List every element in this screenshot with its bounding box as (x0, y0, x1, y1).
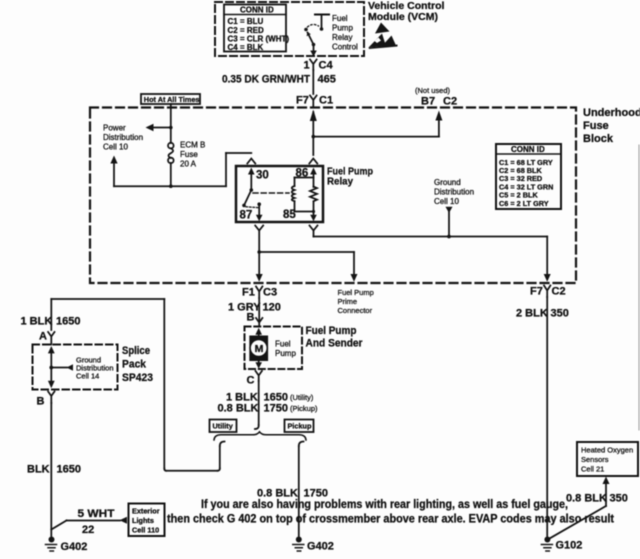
svg-text:(Utility): (Utility) (290, 393, 314, 402)
svg-text:ECM B: ECM B (180, 141, 205, 150)
svg-text:(Not used): (Not used) (415, 86, 451, 95)
ECM B fuse (168, 143, 174, 163)
wire relay 87 to F1 C3 (256, 231, 263, 282)
svg-text:1650: 1650 (56, 316, 80, 328)
node 1 C4 connector (304, 60, 334, 72)
wire splice to G402 (50, 403, 52, 536)
VCM dashed box (215, 2, 364, 56)
relay pin 87 (240, 202, 263, 221)
svg-text:If you are also having problem: If you are also having problems with rea… (201, 499, 568, 511)
svg-text:F7: F7 (296, 95, 309, 107)
svg-text:C1 = BLU: C1 = BLU (228, 17, 264, 26)
svg-text:CONN ID: CONN ID (511, 145, 545, 154)
svg-text:20 A: 20 A (180, 160, 197, 169)
junction dot (169, 126, 173, 130)
right ground wire (546, 297, 548, 536)
svg-text:Relay: Relay (332, 33, 352, 42)
svg-text:And Sender: And Sender (306, 338, 364, 350)
wire VCM control into fuse block (309, 110, 317, 164)
svg-text:Utility: Utility (213, 422, 234, 431)
svg-text:F1: F1 (242, 287, 255, 299)
svg-text:Fuel: Fuel (275, 340, 291, 349)
5 WHT 22 branch to exterior lights (51, 517, 127, 530)
svg-text:Exterior: Exterior (132, 507, 160, 516)
svg-text:Pickup: Pickup (288, 422, 312, 431)
svg-text:350: 350 (610, 493, 628, 505)
svg-text:0.8 BLK: 0.8 BLK (218, 403, 259, 415)
svg-text:C4: C4 (319, 60, 334, 72)
svg-text:Pack: Pack (122, 359, 147, 371)
node F1 C3 connector (242, 287, 277, 299)
svg-text:Fuel: Fuel (332, 14, 348, 23)
svg-text:BLK: BLK (27, 464, 50, 476)
relay coil (292, 178, 314, 212)
svg-text:Cell 21: Cell 21 (581, 465, 604, 474)
ground distribution cell 10 reference (434, 178, 474, 237)
svg-text:22: 22 (82, 524, 94, 536)
svg-text:Cell 10: Cell 10 (434, 197, 459, 206)
wire fuse to relay pin 30 (170, 163, 172, 186)
exterior lights box (129, 504, 165, 537)
svg-text:Power: Power (103, 124, 126, 133)
svg-text:Connector: Connector (338, 306, 373, 315)
svg-text:B7: B7 (421, 96, 435, 108)
underhood fuse block dashed box (90, 108, 576, 284)
connector chevron below relay pin 85 (310, 226, 318, 231)
svg-text:2 BLK: 2 BLK (516, 308, 548, 320)
svg-text:30: 30 (256, 170, 269, 182)
svg-text:Distribution: Distribution (103, 133, 143, 142)
svg-text:350: 350 (551, 308, 569, 320)
fuel pump relay box (236, 166, 323, 222)
wire from hot at all times to fuse (170, 104, 172, 143)
svg-text:Cell 10: Cell 10 (103, 143, 128, 152)
svg-text:C: C (247, 375, 255, 387)
svg-text:G402: G402 (61, 541, 88, 553)
wire relay 85 to F7 C2 (314, 231, 551, 282)
ground G402 center (293, 537, 304, 552)
relay resistor (310, 187, 317, 202)
splice pack dashed box (33, 345, 118, 390)
utility branch wire (51, 299, 224, 471)
power distribution up arrow (113, 163, 115, 186)
ground distribution cell 14 reference arrow (51, 364, 73, 371)
hot at all times box (141, 94, 200, 104)
svg-text:1750: 1750 (264, 403, 288, 415)
svg-text:G402: G402 (307, 541, 334, 553)
svg-text:Underhood: Underhood (583, 107, 640, 119)
B7 C2 stub wire (not used) (313, 111, 442, 137)
svg-text:Heated Oxygen: Heated Oxygen (581, 446, 633, 455)
svg-text:C2: C2 (552, 286, 566, 298)
node F7 C2 connector (530, 286, 566, 298)
svg-text:Fuse: Fuse (583, 120, 609, 132)
pickup branch wire (299, 442, 304, 537)
svg-text:1650: 1650 (57, 464, 81, 476)
utility tag box (210, 420, 237, 433)
svg-text:Prime: Prime (338, 297, 358, 306)
pump connector arrow in (255, 328, 262, 335)
svg-text:Module (VCM): Module (VCM) (368, 11, 438, 23)
power distribution branch arrow (153, 127, 171, 129)
relay pin 86 (296, 168, 317, 188)
relay 85 internal wire (295, 211, 314, 213)
svg-text:Ground: Ground (434, 178, 461, 187)
svg-text:1750: 1750 (304, 488, 328, 500)
svg-text:Pump: Pump (332, 24, 353, 33)
svg-text:Hot At All Times: Hot At All Times (144, 95, 200, 104)
svg-text:1 BLK: 1 BLK (21, 316, 53, 328)
svg-text:Lights: Lights (132, 516, 154, 525)
svg-text:then check G 402 on top of cr: then check G 402 on top of crossmember a… (167, 514, 614, 526)
svg-text:Sensors: Sensors (581, 455, 609, 464)
svg-text:C4 = BLK: C4 = BLK (228, 43, 264, 52)
relay coil control dashed line (253, 192, 289, 194)
heated oxygen sensors box (577, 442, 638, 476)
svg-text:Distribution: Distribution (434, 188, 474, 197)
svg-text:SP423: SP423 (122, 372, 153, 384)
svg-text:Fuel Pump: Fuel Pump (306, 325, 357, 337)
svg-text:0.35 DK GRN/WHT: 0.35 DK GRN/WHT (222, 74, 310, 86)
ESD warning triangles (369, 23, 398, 50)
svg-text:C1: C1 (319, 95, 333, 107)
svg-text:B: B (247, 312, 255, 324)
svg-text:0.8 BLK: 0.8 BLK (257, 488, 298, 500)
splice pack internal wire (48, 346, 55, 388)
fuel pump relay control driver in VCM (304, 15, 329, 57)
svg-text:C2 = RED: C2 = RED (228, 26, 264, 35)
connector chevron below relay pin 87 (255, 226, 263, 231)
svg-text:CONN ID: CONN ID (240, 6, 274, 15)
svg-text:A: A (39, 331, 47, 343)
svg-text:1: 1 (304, 60, 310, 72)
svg-text:B: B (37, 396, 45, 408)
svg-text:1 GRY: 1 GRY (228, 302, 261, 314)
heated oxygen sensors wire (550, 477, 610, 539)
junction to B7 stub (312, 135, 316, 139)
svg-text:Fuel Pump: Fuel Pump (338, 288, 374, 297)
wire F1 C3 to pump (258, 298, 260, 320)
svg-text:F7: F7 (530, 286, 543, 298)
svg-text:G102: G102 (556, 540, 583, 552)
svg-text:Relay: Relay (327, 176, 353, 188)
relay switch arm (244, 190, 251, 205)
svg-text:Cell 14: Cell 14 (76, 372, 99, 381)
svg-text:Cell 110: Cell 110 (132, 526, 159, 535)
svg-text:C3: C3 (263, 287, 277, 299)
svg-text:M: M (255, 343, 264, 355)
svg-text:(Pickup): (Pickup) (290, 404, 318, 413)
scan edge artifact (638, 145, 640, 430)
svg-text:Fuse: Fuse (180, 150, 198, 159)
connector chevron at relay pin 30 (247, 159, 255, 164)
ground G402 left (46, 537, 57, 552)
pump connector arrow out (258, 361, 260, 363)
svg-text:5 WHT: 5 WHT (78, 508, 115, 520)
svg-text:87: 87 (240, 210, 253, 222)
node F7 C1 connector (296, 95, 333, 108)
split brace (214, 432, 306, 440)
svg-text:465: 465 (318, 74, 336, 86)
fuel pump motor (249, 336, 268, 362)
svg-text:120: 120 (263, 302, 281, 314)
relay pin 30 (248, 168, 269, 192)
svg-text:0.8 BLK: 0.8 BLK (566, 493, 607, 505)
relay pin 85 exit (310, 202, 317, 221)
pickup tag box (285, 420, 314, 433)
svg-text:Control: Control (332, 43, 358, 52)
wire VCM to fuse block (312, 70, 314, 94)
fuse block CONN ID table (496, 144, 561, 209)
svg-text:85: 85 (283, 209, 296, 221)
VCM CONN ID table (224, 5, 289, 53)
svg-text:Pump: Pump (275, 349, 296, 358)
wire to fuel pump prime connector (259, 252, 357, 282)
svg-text:C6 = 2 LT GRY: C6 = 2 LT GRY (499, 199, 549, 208)
fuel pump and sender dashed box (245, 327, 303, 370)
ground G102 (541, 537, 552, 552)
svg-text:Splice: Splice (122, 345, 150, 357)
svg-text:Block: Block (583, 133, 614, 145)
wire pump to split (258, 381, 260, 425)
svg-text:C2: C2 (443, 96, 457, 108)
